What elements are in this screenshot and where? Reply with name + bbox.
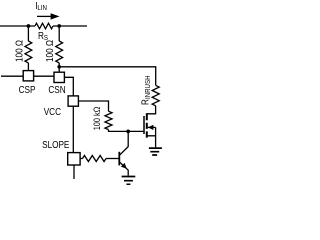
wire CSP to CSN bbox=[34, 75, 54, 77]
wire CSN node to RINRUSH bbox=[59, 67, 156, 86]
transistor Q1 collector bbox=[120, 131, 128, 154]
svg-text:100 kΩ: 100 kΩ bbox=[92, 107, 102, 131]
wire SLOPE bottom stub bbox=[73, 165, 75, 179]
svg-text:100 Ω: 100 Ω bbox=[14, 40, 25, 62]
transistor Q1 emitter arrow bbox=[121, 163, 127, 169]
resistor RINRUSH bbox=[152, 85, 159, 105]
pin box CSP bbox=[23, 71, 33, 81]
wire CSP left stub bbox=[1, 75, 23, 77]
current arrow ILIN bbox=[37, 13, 60, 19]
pin box CSN bbox=[54, 72, 64, 82]
mosfet M1 body arrow bbox=[148, 125, 154, 130]
mosfet M1 channel bar bbox=[146, 113, 148, 137]
wire VCC to SLOPE rail bbox=[72, 106, 74, 152]
wire SLOPE box to resistor bbox=[80, 158, 82, 160]
mosfet M1 drain lead bbox=[147, 106, 156, 114]
mosfet M1 source lead bbox=[147, 127, 156, 147]
pin box SLOPE bbox=[68, 153, 80, 165]
ground MOSFET source bbox=[149, 148, 162, 155]
resistor 100 kOhm bbox=[105, 111, 112, 129]
svg-text:CSP: CSP bbox=[19, 84, 36, 95]
resistor slope series bbox=[83, 156, 107, 162]
wire CSN to VCC bbox=[64, 77, 73, 96]
svg-text:LIN: LIN bbox=[37, 5, 47, 13]
wire right branch lower bbox=[58, 63, 60, 72]
wire left branch upper bbox=[27, 26, 29, 41]
wire top rail right bbox=[53, 25, 87, 27]
resistor 100 Ohm left bbox=[25, 41, 32, 63]
wire right branch upper bbox=[58, 26, 60, 41]
resistor RS bbox=[35, 23, 53, 29]
label RINRUSH bbox=[140, 75, 152, 105]
resistor 100 Ohm right bbox=[56, 41, 63, 63]
wire top rail left bbox=[0, 25, 35, 27]
wire gate node bbox=[109, 130, 145, 132]
svg-text:100 Ω: 100 Ω bbox=[44, 40, 55, 62]
transistor Q1 base bar bbox=[118, 152, 120, 166]
node junction CSN bbox=[57, 65, 61, 69]
svg-text:INRUSH: INRUSH bbox=[144, 75, 152, 99]
svg-text:VCC: VCC bbox=[44, 106, 62, 117]
svg-text:CSN: CSN bbox=[48, 84, 65, 95]
pin box VCC bbox=[68, 96, 78, 106]
mosfet M1 body line bbox=[148, 126, 156, 128]
svg-text:SLOPE: SLOPE bbox=[42, 139, 69, 150]
label ILIN bbox=[35, 0, 47, 12]
ground BJT emitter bbox=[122, 177, 136, 185]
node junction right bbox=[57, 24, 61, 28]
mosfet M1 gate bar bbox=[143, 116, 145, 134]
label RS bbox=[38, 30, 48, 42]
wire resistor to base bbox=[106, 158, 119, 160]
transistor Q1 emitter bbox=[120, 162, 128, 175]
wire left branch lower bbox=[27, 63, 29, 71]
wire VCC to 100k bbox=[78, 101, 108, 111]
node junction gate bbox=[126, 130, 130, 134]
node junction left bbox=[27, 24, 31, 28]
